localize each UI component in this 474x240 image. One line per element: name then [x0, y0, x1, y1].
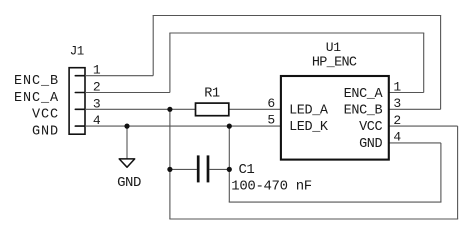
junction C1 right plate: [227, 167, 232, 172]
resistor R1: [196, 103, 229, 116]
wire GND vertical through C1 right: [228, 126, 230, 202]
wire ENC_A right vertical down: [423, 33, 425, 93]
wire ENC_B into U1 pin 3: [389, 108, 441, 110]
svg-text:5: 5: [267, 113, 275, 128]
wire VCC right riser: [457, 126, 459, 219]
wire VCC vertical drop: [169, 109, 171, 219]
wire VCC to C1 left plate: [170, 168, 197, 170]
wire ENC_B horizontal from J1 pin 1: [85, 75, 153, 77]
connector J1: [69, 68, 85, 135]
wire C1 right plate stub: [209, 168, 229, 170]
svg-text:C1: C1: [239, 162, 255, 178]
wire ENC_A horizontal from J1 pin 2: [85, 92, 170, 94]
svg-text:100-470 nF: 100-470 nF: [231, 179, 312, 195]
wire ENC_A into U1 pin 1: [389, 92, 424, 94]
svg-text:4: 4: [393, 130, 401, 145]
svg-text:ENC_A: ENC_A: [14, 91, 59, 106]
svg-text:U1: U1: [326, 40, 342, 55]
svg-text:GND: GND: [359, 137, 382, 152]
wire VCC bottom horizontal: [169, 218, 458, 220]
svg-text:3: 3: [393, 96, 401, 111]
svg-text:J1: J1: [70, 45, 84, 59]
svg-text:VCC: VCC: [32, 108, 59, 123]
wire from R1 to U1 pin 6: [229, 108, 281, 110]
wire VCC into U1 pin 2: [389, 125, 458, 127]
svg-text:6: 6: [267, 96, 275, 111]
wire GND right riser: [440, 143, 442, 202]
wire GND from J1 pin 4 to U1 pin 5: [85, 125, 281, 127]
svg-text:VCC: VCC: [359, 120, 382, 135]
wire GND drop to ground symbol: [126, 126, 128, 159]
junction C1 left plate: [167, 167, 172, 172]
svg-text:ENC_B: ENC_B: [344, 104, 383, 119]
IC U1: [281, 76, 389, 160]
svg-text:LED_A: LED_A: [289, 104, 329, 119]
svg-text:2: 2: [393, 113, 401, 128]
junction GND at ground symbol drop: [124, 124, 129, 129]
wire GND bottom horizontal: [229, 201, 442, 203]
wire ENC_B right vertical down: [440, 16, 442, 110]
svg-text:GND: GND: [32, 124, 59, 139]
wire ENC_A vertical riser left: [169, 33, 171, 93]
svg-text:LED_K: LED_K: [289, 120, 329, 135]
wire VCC from J1 pin 3 to R1: [85, 108, 196, 110]
wire ENC_B top horizontal: [153, 15, 442, 17]
ground symbol: [119, 159, 135, 167]
wire ENC_B vertical riser left: [152, 16, 154, 76]
junction GND at C1 vertical: [227, 124, 232, 129]
svg-text:ENC_A: ENC_A: [344, 87, 384, 102]
capacitor C1: [198, 155, 208, 182]
wire GND into U1 pin 4: [389, 142, 441, 144]
svg-text:ENC_B: ENC_B: [14, 74, 59, 89]
svg-text:GND: GND: [117, 175, 141, 191]
wire ENC_A top horizontal: [169, 32, 424, 34]
svg-text:R1: R1: [204, 87, 220, 102]
svg-text:1: 1: [393, 79, 401, 94]
junction VCC at R1 branch: [167, 107, 172, 112]
svg-text:HP_ENC: HP_ENC: [312, 56, 357, 71]
